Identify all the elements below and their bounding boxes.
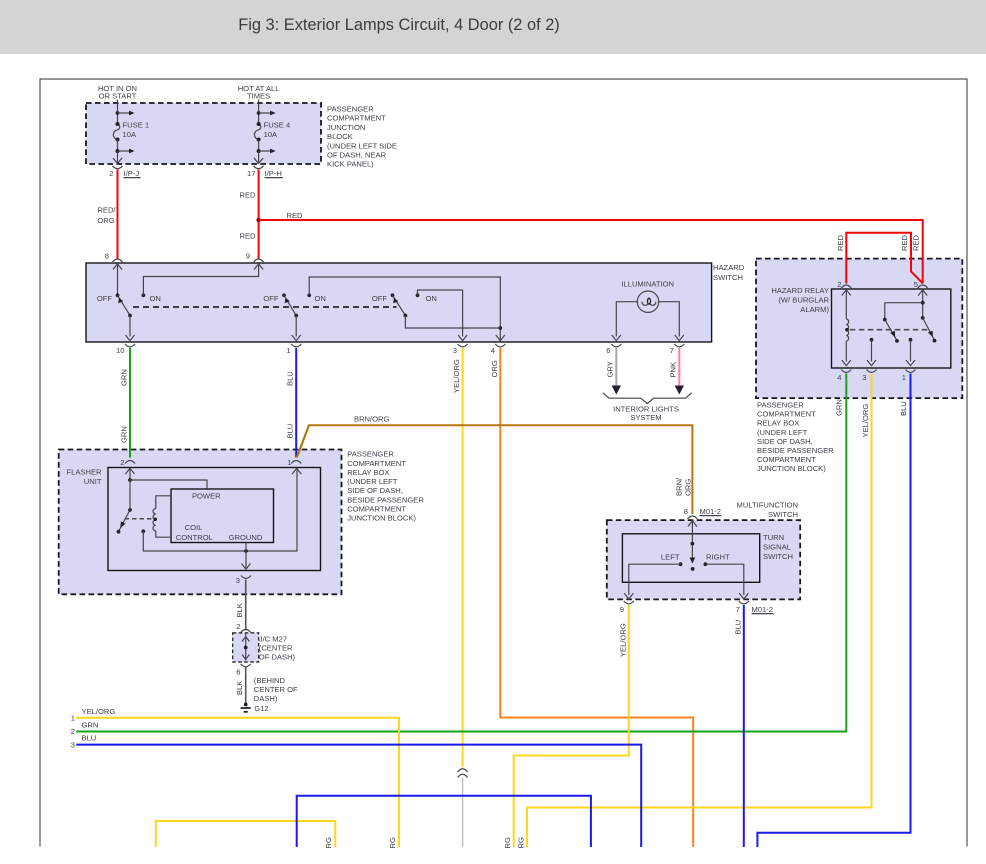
svg-text:FUSE 4: FUSE 4 [264, 121, 291, 130]
wire YEL/ORG MF pin9 down-left to bottom [514, 605, 629, 847]
relay coil (pin2 to pin4) [842, 290, 851, 366]
svg-text:8: 8 [105, 252, 109, 261]
svg-text:OR START: OR START [99, 92, 137, 101]
svg-text:SWITCH: SWITCH [763, 552, 793, 561]
svg-text:G12: G12 [254, 704, 268, 713]
connector pin 17 I/P-H [247, 166, 283, 178]
svg-text:3: 3 [236, 576, 240, 585]
svg-text:1: 1 [286, 346, 290, 355]
svg-text:OFF: OFF [263, 294, 279, 303]
flasher coil [153, 496, 171, 537]
svg-text:ALARM): ALARM) [800, 305, 829, 314]
svg-text:FUSE 1: FUSE 1 [123, 121, 150, 130]
relay actuation linkage (dashed) [850, 329, 930, 331]
svg-text:ILLUMINATION: ILLUMINATION [621, 280, 674, 289]
flasher pin 1 (top) [287, 458, 301, 474]
svg-text:RED: RED [900, 234, 909, 251]
wire YEL/ORG hazard pin3 down [462, 348, 464, 767]
svg-text:BLU: BLU [82, 734, 97, 743]
svg-text:SIDE OF DASH,: SIDE OF DASH, [757, 437, 813, 446]
hazard switch pin 10 [116, 344, 135, 355]
svg-text:SWITCH: SWITCH [713, 273, 743, 282]
svg-text:M01-2: M01-2 [700, 507, 722, 516]
svg-text:BLU: BLU [286, 371, 295, 386]
svg-text:GRN: GRN [82, 720, 99, 729]
svg-text:BLK: BLK [235, 681, 244, 695]
wire break symbol [458, 769, 468, 778]
flasher ground wiring [242, 543, 251, 570]
hazard switch pin 4 [491, 344, 506, 355]
svg-text:YEL/ORG: YEL/ORG [82, 707, 116, 716]
switch S3 OFF/ON [372, 290, 500, 341]
svg-text:RED/: RED/ [97, 206, 116, 215]
node: HOT AT ALL TIMES [238, 84, 280, 103]
wire BLK J/C M27 to ground G12 [245, 667, 247, 703]
svg-text:ORG: ORG [490, 360, 499, 377]
svg-text:2: 2 [120, 458, 124, 467]
svg-text:7: 7 [670, 346, 674, 355]
svg-text:10A: 10A [123, 130, 137, 139]
svg-text:OF DASH): OF DASH) [259, 653, 296, 662]
svg-text:TURN: TURN [763, 533, 784, 542]
passenger compartment junction block (fuse box, dashed) [86, 103, 321, 164]
wire BLU relay pin1 down-left to bottom [757, 374, 910, 848]
svg-text:ORG: ORG [97, 216, 114, 225]
svg-text:17: 17 [247, 169, 255, 178]
ground G12 [241, 703, 269, 713]
svg-text:OFF: OFF [97, 294, 113, 303]
svg-text:RG: RG [503, 837, 512, 848]
MF pin 7 connector M01-2 (bottom) [736, 601, 774, 614]
wire ORG hazard pin4 down right to bottom [500, 348, 693, 847]
flasher switch blade [117, 508, 132, 533]
multifunction switch dashed box [607, 520, 800, 599]
wire BLU bridge (bottom) [297, 796, 591, 847]
turn signal switch inner box [622, 534, 759, 583]
wire GRY to interior lights [615, 348, 617, 387]
J/C M27 box (dashed) [233, 633, 259, 662]
flasher linkage (dashed) [125, 518, 153, 520]
svg-text:COIL: COIL [185, 523, 203, 532]
svg-text:JUNCTION: JUNCTION [327, 123, 365, 132]
svg-text:3: 3 [862, 373, 866, 382]
svg-text:UNIT: UNIT [84, 477, 102, 486]
flasher power feed wiring [128, 468, 207, 510]
svg-text:I/P-J: I/P-J [124, 169, 140, 178]
fuse F1 (FUSE 1 10A) [113, 103, 149, 164]
svg-text:2: 2 [236, 622, 240, 631]
relay switch contact B [921, 316, 937, 343]
brace interior lights system [603, 393, 692, 404]
flasher coil control node [141, 468, 297, 553]
svg-text:LEFT: LEFT [661, 553, 680, 562]
svg-text:YEL/ORG: YEL/ORG [861, 404, 870, 438]
svg-text:(CENTER: (CENTER [259, 644, 293, 653]
svg-text:COMPARTMENT: COMPARTMENT [757, 455, 816, 464]
svg-text:BLU: BLU [899, 401, 908, 416]
switch S2 OFF/ON [263, 277, 504, 341]
lamp ILLUMINATION [612, 280, 684, 341]
svg-text:SIDE OF DASH,: SIDE OF DASH, [347, 486, 403, 495]
svg-text:4: 4 [837, 373, 841, 382]
wire YEL/ORG relay pin3 down-left to bottom [527, 374, 872, 848]
wire BLU hazard pin1 to flasher pin 1 [295, 348, 297, 458]
wire YEL/ORG (1) from left edge down to bottom [76, 718, 399, 847]
svg-text:RED: RED [912, 234, 921, 251]
svg-text:RG: RG [324, 837, 333, 848]
junction node dot [256, 218, 261, 223]
svg-text:RED: RED [287, 211, 304, 220]
svg-text:GRN: GRN [120, 369, 129, 386]
wire GRN hazard pin10 to flasher pin 2 [129, 348, 131, 458]
wire RED feed stub inside relay box [922, 258, 924, 284]
label 2 GRN [71, 720, 99, 736]
svg-text:CENTER OF: CENTER OF [254, 685, 298, 694]
switch linkage (dashed) [133, 306, 397, 308]
pin 9 (top entry) [246, 252, 264, 270]
svg-text:RED: RED [836, 234, 845, 251]
svg-text:YEL/ORG: YEL/ORG [618, 623, 627, 657]
svg-text:RED: RED [240, 191, 257, 200]
svg-text:10A: 10A [264, 130, 278, 139]
wire BRN/ORG flasher pin1 to multifunction switch pin 8 [297, 425, 693, 514]
svg-text:PNK: PNK [669, 362, 678, 378]
svg-text:COMPARTMENT: COMPARTMENT [327, 114, 386, 123]
hazard switch pin 7 [670, 344, 685, 355]
svg-text:BRN/: BRN/ [675, 477, 684, 496]
svg-text:J/C M27: J/C M27 [259, 635, 287, 644]
svg-text:OF DASH, NEAR: OF DASH, NEAR [327, 151, 387, 160]
svg-text:2: 2 [109, 169, 113, 178]
svg-text:COMPARTMENT: COMPARTMENT [347, 505, 406, 514]
svg-text:RELAY BOX: RELAY BOX [757, 419, 799, 428]
svg-text:(BEHIND: (BEHIND [254, 676, 286, 685]
title bar [0, 0, 986, 54]
flasher pin 2 (top) [120, 458, 135, 474]
svg-text:JUNCTION BLOCK): JUNCTION BLOCK) [757, 464, 826, 473]
svg-text:DASH): DASH) [254, 694, 278, 703]
svg-text:GRY: GRY [606, 361, 615, 377]
wire YEL/ORG bridge (bottom left) [156, 821, 335, 847]
svg-text:SYSTEM: SYSTEM [630, 413, 661, 422]
svg-text:RIGHT: RIGHT [706, 553, 730, 562]
wire BLU MF pin7 to bottom [743, 605, 745, 847]
svg-text:10: 10 [116, 346, 124, 355]
svg-text:M01-2: M01-2 [752, 605, 774, 614]
svg-text:HAZARD RELAY: HAZARD RELAY [771, 286, 829, 295]
svg-text:6: 6 [236, 668, 240, 677]
relay pin 4 (bottom) [837, 370, 851, 383]
svg-text:OFF: OFF [372, 294, 388, 303]
svg-text:RED: RED [240, 232, 257, 241]
contact RIGHT [704, 553, 749, 600]
hazard switch box [86, 263, 712, 342]
svg-text:9: 9 [246, 252, 250, 261]
relay pin 2 (top) [837, 280, 851, 296]
svg-text:I/P-H: I/P-H [265, 169, 282, 178]
svg-text:7: 7 [736, 605, 740, 614]
contact LEFT [624, 553, 682, 600]
flasher pin 3 (bottom) [236, 576, 251, 586]
svg-text:RG: RG [388, 837, 397, 848]
hazard switch pin 6 [606, 344, 621, 355]
wire GRN stub into flasher [129, 449, 131, 458]
relay pin 1 (bottom) [902, 370, 916, 383]
svg-text:ON: ON [315, 294, 326, 303]
wire GRN relay pin4 to left edge [76, 374, 846, 732]
relay pin 3 (bottom) [862, 370, 876, 383]
fuse F4 (FUSE 4 10A) [254, 103, 290, 164]
wire RED jumper pin2 to pin5 [846, 233, 922, 284]
switch S1 OFF/ON [97, 264, 259, 341]
svg-text:COMPARTMENT: COMPARTMENT [347, 459, 406, 468]
flasher inner box [108, 468, 321, 571]
hazard switch pin 1 [286, 344, 301, 355]
svg-text:BLU: BLU [286, 424, 295, 439]
left edge connector wires 1,2,3 [71, 707, 116, 723]
MF pin 9 (bottom) [620, 601, 634, 614]
svg-text:BESIDE PASSENGER: BESIDE PASSENGER [347, 495, 424, 504]
svg-text:GROUND: GROUND [229, 533, 263, 542]
pin 8 (top entry) [105, 252, 123, 270]
svg-text:2: 2 [71, 727, 75, 736]
svg-text:RELAY BOX: RELAY BOX [347, 468, 389, 477]
wire BLU stub into flasher [295, 449, 297, 458]
svg-text:1: 1 [287, 458, 291, 467]
svg-text:(UNDER LEFT: (UNDER LEFT [757, 428, 808, 437]
svg-text:SWITCH: SWITCH [768, 510, 798, 519]
relay box label text [757, 401, 834, 474]
svg-text:(UNDER LEFT SIDE: (UNDER LEFT SIDE [327, 141, 397, 150]
wire BLU (3) from left edge down to bottom [76, 745, 641, 847]
svg-text:ORG: ORG [684, 479, 693, 496]
svg-text:JUNCTION BLOCK): JUNCTION BLOCK) [347, 514, 416, 523]
arrow to interior lights (right) [675, 386, 684, 395]
relay stationary contact to pin 1 [906, 338, 915, 366]
svg-text:1: 1 [902, 373, 906, 382]
svg-text:BLU: BLU [733, 620, 742, 635]
svg-text:2: 2 [837, 280, 841, 289]
svg-text:HAZARD: HAZARD [713, 263, 745, 272]
svg-text:6: 6 [606, 346, 610, 355]
wire RED from fuse 4 down to junction [258, 170, 260, 259]
relay pin 5 (top) [914, 280, 928, 296]
svg-text:ON: ON [426, 294, 437, 303]
svg-text:BRN/ORG: BRN/ORG [354, 415, 390, 424]
flasher unit dashed box [59, 450, 342, 595]
svg-text:(UNDER LEFT: (UNDER LEFT [347, 477, 398, 486]
svg-text:KICK PANEL): KICK PANEL) [327, 160, 374, 169]
svg-text:Fig 3: Exterior Lamps Circuit,: Fig 3: Exterior Lamps Circuit, 4 Door (2… [238, 16, 560, 34]
MF pin 8 connector M01-2 [684, 507, 722, 527]
svg-text:PASSENGER: PASSENGER [347, 450, 394, 459]
svg-text:9: 9 [620, 605, 624, 614]
label 3 BLU [71, 734, 97, 750]
hazard relay dashed box (passenger compartment relay box) [756, 259, 962, 399]
hazard switch pin 3 [453, 344, 468, 355]
svg-text:POWER: POWER [192, 492, 221, 501]
svg-text:TIMES: TIMES [247, 92, 270, 101]
svg-text:3: 3 [453, 346, 457, 355]
wire RED horizontal feed to hazard relay pin 5 [259, 220, 923, 284]
flasher module box [171, 489, 274, 543]
svg-text:CONTROL: CONTROL [176, 533, 213, 542]
wire continuation (grey) to page bottom [462, 778, 464, 848]
arrow to interior lights (left) [612, 386, 621, 395]
connector pin 2 I/P-J [109, 166, 140, 178]
svg-text:(W/ BURGLAR: (W/ BURGLAR [778, 296, 829, 305]
relay common node from pin 5 [885, 290, 925, 320]
svg-text:ON: ON [150, 294, 161, 303]
turn signal switch blade [690, 521, 696, 571]
svg-text:BLOCK: BLOCK [327, 132, 353, 141]
svg-text:3: 3 [71, 740, 75, 749]
svg-text:YEL/ORG: YEL/ORG [452, 359, 461, 393]
svg-text:BLK: BLK [235, 603, 244, 617]
wire BLK flasher pin3 to J/C M27 [245, 580, 247, 631]
svg-text:MULTIFUNCTION: MULTIFUNCTION [737, 501, 798, 510]
node: HOT IN ON OR START [98, 84, 137, 103]
svg-text:SIGNAL: SIGNAL [763, 543, 791, 552]
svg-text:GRN: GRN [834, 399, 843, 416]
wire RED/ORG from fuse 1 to hazard switch pin 8 [117, 170, 119, 259]
svg-text:RG: RG [517, 837, 526, 848]
svg-text:PASSENGER: PASSENGER [327, 105, 374, 114]
junction connector J/C M27 pin 6 [236, 664, 250, 677]
svg-text:1: 1 [71, 714, 75, 723]
wire PNK to interior lights [678, 348, 680, 387]
relay switch contact A [883, 318, 899, 343]
svg-text:8: 8 [684, 507, 688, 516]
svg-text:COMPARTMENT: COMPARTMENT [757, 410, 816, 419]
svg-text:GRN: GRN [120, 426, 129, 443]
wire BRN/ORG stub from flasher pin 1 [297, 425, 309, 457]
flasher relay box label text [347, 450, 424, 523]
J/C M27 internal wire [245, 633, 247, 661]
relay stationary contact to pin 3 [867, 338, 876, 366]
svg-text:4: 4 [491, 346, 495, 355]
svg-text:FLASHER: FLASHER [66, 468, 102, 477]
svg-text:BESIDE PASSENGER: BESIDE PASSENGER [757, 446, 834, 455]
junction block label text [327, 105, 397, 169]
junction connector J/C M27 pin 2 [236, 622, 250, 633]
hazard relay inner box U1 [832, 289, 951, 368]
svg-text:PASSENGER: PASSENGER [757, 401, 804, 410]
